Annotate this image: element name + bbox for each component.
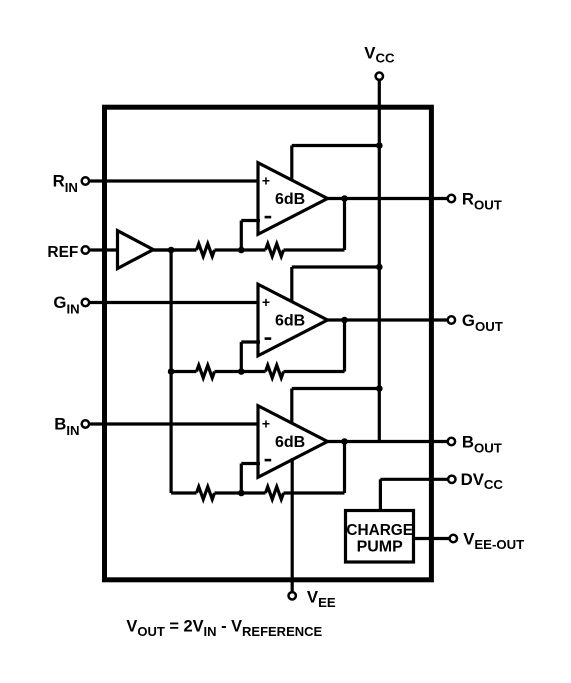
wire GIN input to op-amp + input	[89, 301, 260, 304]
terminal VEE-OUT pin	[450, 535, 457, 542]
wire U3 inverting input	[241, 462, 260, 465]
resistor R2 (R feedback)	[266, 244, 284, 257]
wire U2 top tap to VCC rail	[292, 265, 380, 268]
wire U3 top tap to VCC rail	[292, 387, 380, 390]
wire REF terminal to buffer input	[89, 248, 117, 251]
junction U2 tap on VCC rail	[376, 264, 383, 271]
junction U1 tap on VCC rail	[376, 142, 383, 149]
terminal REF pin	[82, 246, 89, 253]
svg-text:CHARGE: CHARGE	[346, 522, 413, 539]
terminal GIN pin	[82, 299, 89, 306]
svg-text:+: +	[262, 416, 270, 432]
svg-text:6dB: 6dB	[275, 313, 305, 330]
junction REF node / R row	[168, 247, 175, 254]
wire U1 feedback vertical	[343, 199, 346, 251]
terminal VEE pin	[289, 592, 296, 599]
wire R row left segment	[153, 248, 196, 251]
resistor R3 (G gain-set, REF side)	[197, 365, 215, 378]
wire U1 inverting node vertical	[240, 221, 243, 251]
junction REF node / G row	[168, 368, 175, 375]
wire U1 top tap vertical	[290, 146, 293, 181]
wire BIN input to op-amp + input	[89, 422, 260, 425]
wire G row middle segment	[215, 370, 266, 373]
IC package outline box	[105, 107, 432, 580]
svg-text:PUMP: PUMP	[357, 539, 404, 556]
junction U2 output node	[341, 317, 348, 324]
wire U2 feedback vertical	[343, 320, 346, 372]
wire U3 top tap vertical	[290, 389, 293, 424]
junction U2 inverting node	[238, 368, 245, 375]
terminal BIN pin	[82, 420, 89, 427]
resistor R1 (R gain-set, REF side)	[197, 244, 215, 257]
junction U3 output node	[341, 438, 348, 445]
wire U3 inverting node vertical	[240, 464, 243, 494]
wire U1 top tap to VCC rail	[292, 144, 380, 147]
terminal ROUT pin	[448, 195, 455, 202]
buffer amplifier U4 (REF unity buffer)	[118, 231, 154, 269]
wire G row left segment	[171, 370, 196, 373]
svg-text:+: +	[262, 173, 270, 189]
wire buffer output to REF node	[153, 248, 196, 251]
wire DVCC pin to charge pump	[380, 478, 448, 481]
svg-text:6dB: 6dB	[275, 434, 305, 451]
wire RIN input to op-amp + input	[89, 179, 260, 182]
svg-text:6dB: 6dB	[275, 191, 305, 208]
svg-text:+: +	[262, 294, 270, 310]
wire U3 feedback vertical	[343, 442, 346, 494]
wire R row right segment	[284, 248, 345, 251]
resistor R4 (G feedback)	[266, 365, 284, 378]
wire U2 top tap vertical	[290, 267, 293, 302]
terminal GOUT pin	[448, 316, 455, 323]
wire B amp bottom tap to VEE pin	[291, 458, 294, 591]
resistor R6 (B feedback)	[266, 487, 284, 500]
junction U3 tap on VCC rail	[376, 385, 383, 392]
svg-text:REF: REF	[47, 244, 78, 261]
wire U2 output to GOUT pin	[328, 318, 448, 321]
op-amp U3 (B channel 6dB amplifier)	[258, 406, 328, 478]
wire U1 output to ROUT pin	[328, 197, 448, 200]
terminal VCC pin	[376, 73, 383, 80]
op-amp U2 (G channel 6dB amplifier)	[258, 284, 328, 356]
wire REF distribution vertical	[170, 250, 173, 493]
wire U1 inverting input	[241, 219, 260, 222]
junction U1 inverting node	[238, 247, 245, 254]
wire charge pump output to VEE-OUT pin	[414, 537, 450, 540]
wire G row right segment	[284, 370, 345, 373]
junction U3 inverting node	[238, 490, 245, 497]
wire U2 inverting node vertical	[240, 342, 243, 372]
charge pump block U5	[346, 511, 414, 563]
wire DVCC vertical into charge pump	[379, 479, 382, 509]
wire B row middle segment	[215, 491, 266, 494]
terminal RIN pin	[82, 177, 89, 184]
op-amp U1 (R channel 6dB amplifier)	[258, 163, 328, 235]
resistor R5 (B gain-set, REF side)	[197, 487, 215, 500]
terminal BOUT pin	[448, 438, 455, 445]
wire R row middle segment	[215, 248, 266, 251]
wire B row right segment	[284, 491, 345, 494]
wire B row left segment	[171, 491, 196, 494]
wire U3 output to BOUT pin	[328, 440, 448, 443]
wire U2 inverting input	[241, 340, 260, 343]
junction U1 output node	[341, 195, 348, 202]
terminal DVCC pin	[448, 476, 455, 483]
wire VCC rail vertical	[378, 81, 381, 442]
